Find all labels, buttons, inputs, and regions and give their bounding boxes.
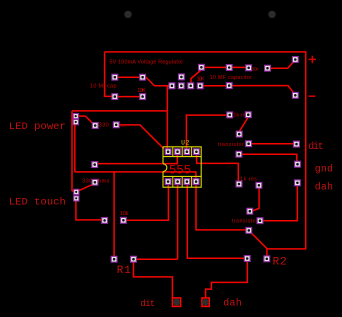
svg-text:10K: 10K — [252, 67, 259, 72]
wire transistor1 bottom to gnd pad — [242, 154, 297, 161]
wire LED power top rail — [72, 110, 167, 112]
wire chip bottom pad3 down to R2 left pad — [187, 185, 244, 258]
wire row y67 pads — [201, 66, 248, 68]
resistor 330 pad left — [92, 123, 98, 129]
svg-text:dit: dit — [140, 298, 155, 309]
svg-text:dit: dit — [308, 141, 324, 153]
label plus terminal — [309, 56, 316, 63]
svg-text:LED power: LED power — [9, 121, 66, 133]
capacitor C2 pad top — [226, 65, 232, 71]
svg-text:10 MF capacitor: 10 MF capacitor — [210, 75, 252, 81]
resistor 10k pad left — [102, 218, 108, 224]
wire R2 left pad down to dah square — [206, 262, 248, 298]
wire 10K top to regulator row — [143, 77, 169, 86]
resistor 330 pad right — [113, 122, 119, 128]
svg-text:gnd: gnd — [315, 164, 333, 176]
resistor 330ohms pad top — [92, 162, 98, 168]
regulator U1 pad 5 — [179, 74, 185, 80]
regulator U1 pad 4 — [197, 83, 203, 89]
terminal pad dit — [294, 141, 300, 147]
svg-text:555: 555 — [169, 164, 191, 178]
wire LED touch pad2 down to 10k res — [76, 201, 102, 220]
IC U2 pin pads bottom row — [165, 179, 199, 185]
svg-text:U2: U2 — [181, 139, 190, 146]
capacitor C1 pad bottom — [112, 94, 118, 100]
terminal pad dah — [295, 180, 301, 186]
resistor 10K#1 pad top — [140, 74, 146, 80]
wire 10K2 top pad down to row pad3 — [191, 70, 201, 84]
wire chip bottom pad4 down to transistor2 — [196, 185, 246, 230]
transistor Q1 pad middle — [246, 141, 252, 147]
resistor 10K#3 pad left — [246, 65, 252, 71]
resistor 1k#1 pad right — [245, 112, 251, 118]
wire branch down to R1 left pad — [113, 172, 115, 259]
transistor Q2 pad middle — [257, 218, 263, 224]
LED touch pad anode — [74, 189, 79, 194]
IC U2 pin pads top row — [165, 149, 199, 155]
wire left 5V box edge down to cap pad — [105, 52, 112, 97]
connector square pad dit (bottom) — [172, 298, 180, 307]
svg-text:10K: 10K — [137, 88, 146, 94]
mounting hole dot left — [124, 11, 131, 18]
wire chip bottom pad2 down to R1 junction — [136, 185, 177, 259]
transistor Q1 pad top — [236, 131, 242, 137]
wire vertical row pad1 to chip pin1 — [166, 86, 168, 151]
capacitor C2 pad bottom — [226, 83, 232, 89]
svg-text:transistor: transistor — [232, 218, 258, 224]
resistor 10K#1 pad bottom — [140, 94, 146, 100]
resistor 1k#1 pad left — [227, 112, 233, 118]
wire 330ohms bottom pad to LED touch pad diagonal — [79, 184, 93, 191]
regulator U1 pad 2 — [178, 83, 184, 89]
capacitor C1 pad top — [112, 74, 118, 80]
regulator U1 pad 3 — [188, 83, 194, 89]
svg-text:dah: dah — [223, 298, 242, 310]
op-amp/timer IC U2 555 outline — [163, 147, 201, 187]
wire LED touch net to chip bottom pad4 — [75, 172, 196, 181]
wire transistor2 bottom diagonal to bus junction — [250, 232, 267, 249]
resistor 10K#2 pad top — [199, 64, 205, 70]
wire R2 right pad up to bus — [266, 249, 268, 256]
wire 330 res to chip pin1 diagonal — [118, 125, 164, 149]
resistor R1 pad left — [111, 256, 117, 262]
resistor R1 pad right — [131, 256, 137, 262]
wire 330ohms pad to chip top pad2 — [98, 152, 178, 164]
wire chip top pad4 to 1k res2 — [197, 155, 239, 181]
svg-text:R1: R1 — [117, 265, 131, 277]
terminal pad minus — [292, 92, 298, 98]
resistor 1k#2 pad right — [256, 182, 262, 188]
svg-text:1k res: 1k res — [240, 177, 257, 183]
wire LED power pad to 330 res — [79, 116, 95, 125]
resistor R2 pad right — [264, 256, 270, 262]
wire cap/10K bottom pair — [115, 96, 143, 98]
wire 10K3 to plus pad — [268, 60, 296, 68]
LED power pad anode — [73, 114, 78, 119]
wire 10k res to chip bottom pad1 — [126, 185, 168, 221]
terminal pad gnd — [295, 161, 301, 167]
svg-text:transistor: transistor — [218, 142, 244, 148]
wire top +5V bus to right side down to R2 junction — [105, 52, 306, 249]
wire 1k res2 down to transistor2 top — [252, 188, 260, 211]
transistor Q2 pad top — [247, 208, 253, 214]
LED touch pad cathode — [74, 196, 79, 201]
resistor 1k#2 pad left — [236, 181, 242, 187]
wire left vertical LED power to LED touch — [72, 111, 75, 193]
wire transistor1 mid to dit pad — [252, 143, 294, 145]
svg-text:res: res — [120, 123, 126, 128]
LED power pad cathode — [73, 120, 78, 125]
svg-text:5V 100mA Voltage Regulator: 5V 100mA Voltage Regulator — [110, 59, 184, 65]
wire LED power pad2 down — [74, 125, 76, 172]
regulator U1 pad 1 — [169, 83, 175, 89]
svg-text:10K: 10K — [197, 76, 205, 82]
resistor 330ohms pad bottom — [92, 179, 98, 185]
resistor 10k pad right — [121, 217, 127, 223]
transistor Q2 pad bottom — [246, 228, 252, 234]
svg-text:dah: dah — [315, 182, 333, 194]
wire capacitor2 to minus pad — [229, 86, 295, 95]
wire cap/10K top pair — [115, 76, 143, 78]
wire transistor2 mid to dah right pad — [263, 186, 297, 221]
svg-text:10k: 10k — [120, 211, 129, 217]
svg-text:LED touch: LED touch — [9, 197, 66, 209]
terminal pad plus — [292, 57, 298, 63]
mounting hole dot right — [268, 11, 275, 18]
wire regulator row to capacitor2 — [203, 85, 229, 87]
wire chip top pad3 up to 1k res — [186, 115, 226, 149]
svg-text:10 Mf cap: 10 Mf cap — [90, 83, 117, 89]
label minus terminal — [309, 95, 316, 97]
wire 1k res to transistor1 base diagonal — [240, 118, 248, 131]
svg-text:R2: R2 — [273, 257, 287, 269]
transistor Q1 pad bottom — [236, 151, 242, 157]
resistor 10K#3 pad right — [265, 65, 271, 71]
resistor R2 pad left — [244, 256, 250, 262]
connector square pad dah (bottom) — [202, 298, 209, 307]
wire R1 right pad to dit square — [134, 262, 173, 298]
svg-text:330: 330 — [99, 122, 109, 128]
